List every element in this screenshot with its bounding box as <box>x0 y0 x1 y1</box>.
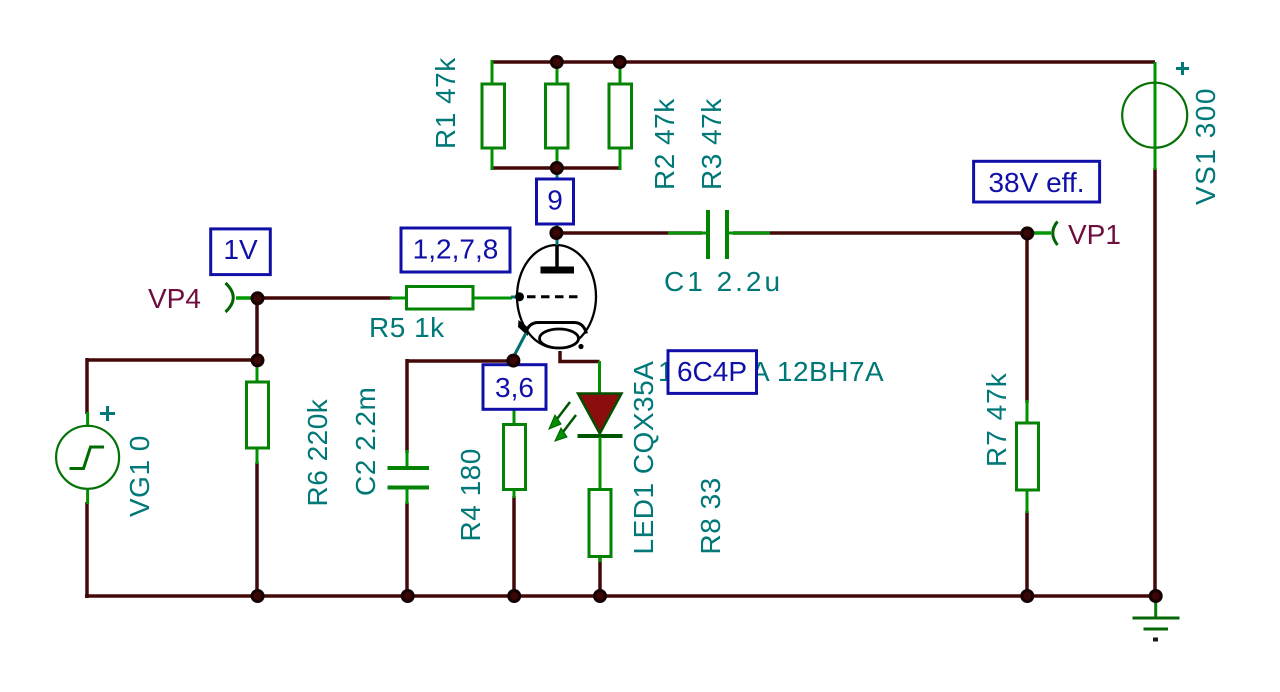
svg-text:VG1 0: VG1 0 <box>124 435 155 517</box>
junction top rail R3 <box>614 57 625 68</box>
label box 1V <box>211 229 271 275</box>
probe VP1 <box>1028 219 1121 250</box>
wire VG1 bottom branch <box>85 502 89 598</box>
triode U1 <box>514 231 597 361</box>
svg-text:R8 33: R8 33 <box>695 477 726 554</box>
source VS1 <box>1122 62 1187 170</box>
svg-text:C1 2.2u: C1 2.2u <box>664 266 783 297</box>
svg-text:LED1 CQX35A: LED1 CQX35A <box>628 361 659 555</box>
junction VG1/R6 node <box>252 355 263 366</box>
cathode <box>526 323 587 334</box>
LED arrow 2 <box>555 415 576 441</box>
junction resistor bottom connector / node 9 <box>551 163 562 174</box>
LED arrow 1 <box>549 402 570 429</box>
resistor R6 <box>247 360 269 464</box>
capacitor C1 <box>668 210 770 259</box>
label box 9 <box>537 179 574 224</box>
svg-text:38V eff.: 38V eff. <box>988 167 1084 198</box>
wire filament stub to LED <box>560 351 600 362</box>
svg-text:R3 47k: R3 47k <box>696 98 727 190</box>
wire top rail <box>492 60 1155 64</box>
wire R8 branch lower <box>598 558 602 596</box>
label box 1,2,7,8 <box>401 228 510 272</box>
wire C1 to VP1 <box>733 231 1027 235</box>
node 9 lead lower <box>556 223 559 234</box>
junction anode node <box>551 228 562 239</box>
VG1 plus sign <box>100 406 115 421</box>
junction bottom rail ground <box>1150 591 1161 602</box>
svg-text:VP4: VP4 <box>148 283 201 314</box>
grid lead teal <box>511 296 519 299</box>
resistor R3 <box>609 62 632 170</box>
label box 3,6 <box>483 365 546 410</box>
wire VP1 node down <box>1025 233 1029 403</box>
wire R6 branch down <box>255 462 259 596</box>
svg-text:VS1 300: VS1 300 <box>1190 87 1221 205</box>
svg-text:R6 220k: R6 220k <box>302 398 333 506</box>
resistor R5 <box>390 287 512 310</box>
wire VG1 top branch <box>85 358 89 414</box>
wire bottom rail <box>85 594 1156 598</box>
junction VP4 grid node <box>252 293 263 304</box>
probe VP4 <box>148 283 256 314</box>
resistor R4 <box>504 361 526 498</box>
wire VS1 branch lower <box>1153 168 1157 596</box>
svg-text:9: 9 <box>547 185 563 216</box>
junction bottom rail C2 <box>402 591 413 602</box>
svg-text:C2 2.2m: C2 2.2m <box>350 387 381 496</box>
VS1 plus sign <box>1176 62 1189 75</box>
source VG1 <box>56 412 119 504</box>
svg-text:A 12BH7A: A 12BH7A <box>751 356 884 387</box>
wire R7 branch lower <box>1025 511 1029 596</box>
svg-text:6C4P: 6C4P <box>677 356 747 387</box>
junction bottom rail R4 <box>509 591 520 602</box>
wire VP4 node down <box>255 298 259 360</box>
resistor R7 <box>1017 400 1039 513</box>
svg-text:VP1: VP1 <box>1068 219 1121 250</box>
svg-text:1,2,7,8: 1,2,7,8 <box>413 234 499 265</box>
wire anode to VP1 <box>557 231 702 235</box>
wire resistor bottom connector <box>492 166 620 170</box>
wire cathode horizontal to C2 <box>407 359 514 363</box>
node 9 lead upper <box>556 168 559 180</box>
label box 38V eff. <box>974 161 1100 202</box>
label box 6C4P <box>668 351 757 394</box>
grid <box>527 295 581 298</box>
svg-text:R1 47k: R1 47k <box>430 57 461 149</box>
svg-text:R4 180: R4 180 <box>455 448 486 541</box>
anode <box>555 245 559 268</box>
junction top rail R2 <box>551 57 562 68</box>
junction cathode node <box>508 355 519 366</box>
ground <box>1133 598 1180 642</box>
resistor R8 <box>589 490 611 563</box>
junction bottom rail R6 <box>252 591 263 602</box>
resistor R2 <box>546 62 569 168</box>
svg-text:R7 47k: R7 47k <box>981 372 1012 467</box>
resistor R1 <box>482 60 505 170</box>
cathode lead teal <box>514 333 527 361</box>
capacitor C2 <box>388 450 430 504</box>
wire C2 branch lower <box>405 502 409 596</box>
svg-text:R2 47k: R2 47k <box>649 98 680 190</box>
junction VP1 output node <box>1022 228 1033 239</box>
anode lead teal <box>556 231 559 247</box>
svg-text:1V: 1V <box>223 234 258 265</box>
junction bottom rail R8 <box>595 591 606 602</box>
wire C2 branch upper <box>405 359 409 453</box>
svg-text:3,6: 3,6 <box>495 372 534 403</box>
svg-text:R5 1k: R5 1k <box>369 312 445 343</box>
LED LED1 <box>578 361 623 491</box>
wire VP4 to R5 <box>257 296 392 300</box>
wire left horizontal <box>87 358 257 362</box>
junction bottom rail R7 <box>1022 591 1033 602</box>
wire R4 branch lower <box>512 496 516 596</box>
